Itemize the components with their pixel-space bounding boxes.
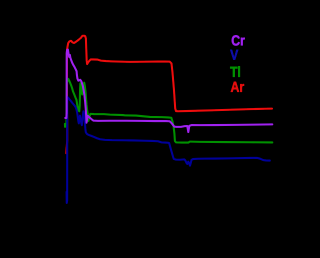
curve V (blue) xyxy=(67,97,270,203)
legend Ar xyxy=(231,82,244,92)
curve Ti (green) xyxy=(65,79,272,143)
curve Cr (purple) xyxy=(65,50,272,133)
curve Ar (red) xyxy=(66,36,272,154)
legend Ti xyxy=(230,66,240,77)
legend Cr xyxy=(232,35,245,45)
legend V xyxy=(230,50,238,60)
